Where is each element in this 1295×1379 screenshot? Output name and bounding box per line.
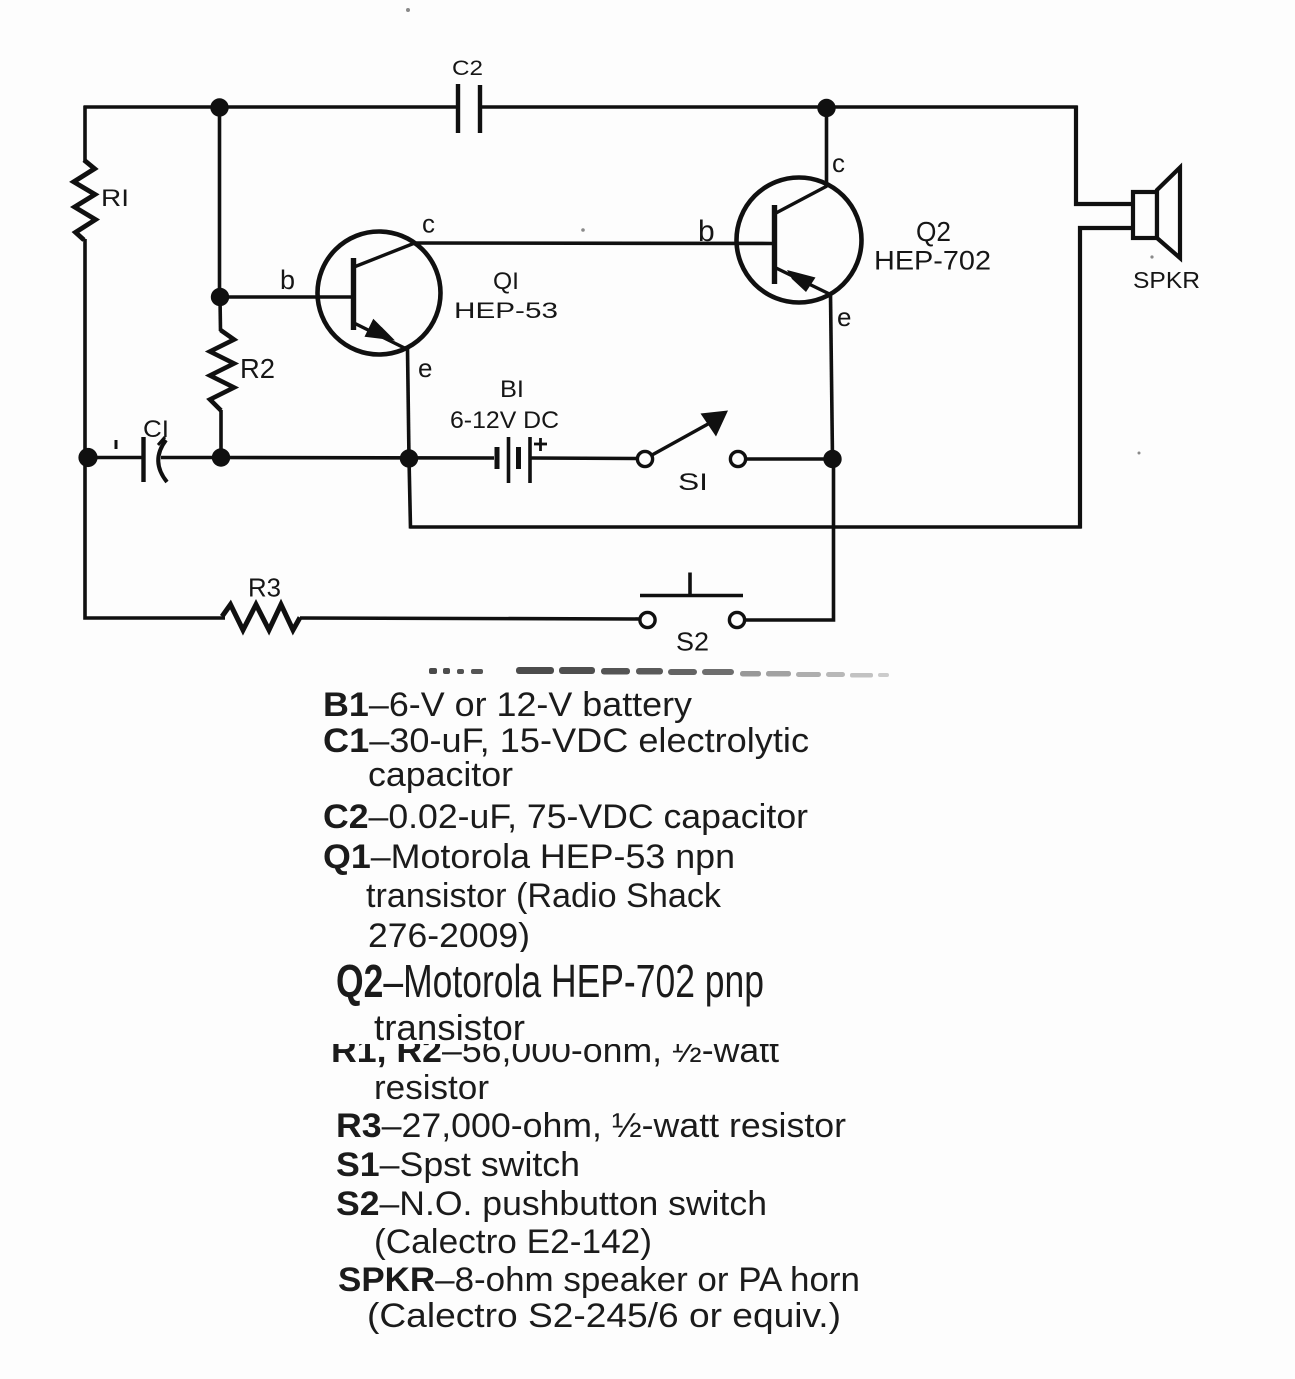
node: Q1 base junction — [211, 288, 229, 306]
battery B1 — [497, 437, 547, 483]
wire emitter junction down to lower rail — [409, 458, 411, 529]
svg-text:e: e — [837, 302, 851, 332]
svg-text:b: b — [280, 265, 295, 295]
capacitor C1 (electrolytic) — [116, 437, 167, 482]
parts list line R3 — [336, 1109, 846, 1143]
parts list line C1 cont — [368, 758, 513, 792]
wire R2 upper stub — [218, 297, 222, 331]
svg-text:R2: R2 — [240, 353, 275, 384]
wire S2 right terminal to corner and up to S1 junction — [745, 458, 834, 620]
svg-text:HEP-702: HEP-702 — [874, 246, 991, 276]
node: C1 left junction — [78, 448, 97, 467]
resistor R3 — [222, 605, 300, 631]
wire R2 lower stub — [219, 410, 223, 458]
parts list line Q1 cont1 — [366, 879, 721, 913]
parts list line R1R2 (top clipped by paste-up patch) — [331, 1034, 779, 1068]
wire top rail right of C2 — [481, 105, 1078, 109]
speaker SPKR — [1133, 168, 1180, 259]
parts list line S2 cont — [374, 1225, 652, 1259]
wire Q1 emitter drop to battery rail — [408, 349, 410, 459]
resistor R1 — [74, 160, 96, 240]
wire battery rail left of B1 — [221, 456, 494, 460]
parts list line B1 — [323, 688, 692, 722]
transistor Q1 — [318, 232, 441, 355]
switch S2 (pushbutton) — [640, 573, 745, 628]
wire C1 right segment to R2 junction — [161, 456, 221, 460]
parts list line Q1 cont2 — [368, 919, 530, 953]
svg-text:Q2: Q2 — [916, 216, 951, 247]
svg-text:SPKR: SPKR — [1133, 267, 1200, 293]
switch S1 — [637, 411, 745, 467]
wire battery to S1 left terminal — [531, 456, 638, 460]
wire C1 left segment — [87, 456, 142, 460]
node: R2 bottom junction — [212, 448, 230, 466]
transistor Q2 — [737, 178, 862, 303]
wire top rail left of C2 — [84, 105, 457, 109]
wire lower horizontal rail — [410, 525, 1082, 529]
scan specks — [406, 8, 1154, 455]
resistor R2 — [210, 330, 234, 411]
erased caption smudge — [429, 667, 889, 678]
wire speaker bottom stub and right rail down — [1080, 228, 1133, 529]
node: S1 right junction — [823, 450, 841, 468]
parts list line C1 — [323, 724, 809, 758]
wire Q2 emitter vertical — [831, 294, 833, 459]
parts list line SPKR cont — [367, 1299, 841, 1333]
parts list line S1 — [336, 1148, 580, 1182]
wire Q2 collector vertical — [825, 107, 829, 187]
svg-text:HEP-53: HEP-53 — [454, 298, 558, 323]
svg-text:e: e — [418, 353, 432, 383]
svg-text:QI: QI — [493, 268, 519, 295]
wire right drop to speaker top stub — [1076, 106, 1133, 205]
svg-text:BI: BI — [500, 376, 524, 403]
parts list line Q1 — [323, 840, 735, 874]
wire left rail top segment — [83, 106, 87, 163]
wire R2 rail from top junction to base junction — [218, 107, 222, 298]
svg-text:S2: S2 — [676, 627, 709, 657]
wire left rail below R1 down to bottom corner — [85, 239, 225, 618]
wire Q1 base lead — [220, 295, 352, 299]
parts list line R1R2 cont — [374, 1071, 489, 1105]
capacitor C2 plates — [458, 84, 480, 133]
parts list line Q2 cont (pasted, condensed) — [374, 1010, 525, 1046]
svg-text:6-12V DC: 6-12V DC — [450, 407, 559, 434]
parts list line C2 — [323, 800, 808, 834]
svg-text:R3: R3 — [248, 573, 281, 603]
svg-text:SI: SI — [678, 469, 708, 496]
svg-text:c: c — [832, 148, 845, 178]
svg-text:b: b — [698, 215, 715, 248]
node: top junction of R2 rail — [210, 98, 228, 116]
svg-text:C2: C2 — [452, 57, 483, 80]
parts list line Q2 (pasted, condensed) — [336, 958, 764, 1004]
node: top junction of Q2 collector — [817, 99, 835, 117]
wire R3 to S2 left terminal — [300, 618, 640, 619]
svg-text:c: c — [422, 209, 435, 239]
wire Q1 collector to Q2 base lead — [414, 241, 772, 245]
svg-text:RI: RI — [101, 185, 129, 212]
parts list line SPKR — [338, 1263, 860, 1297]
svg-text:CI: CI — [143, 416, 169, 443]
node: Q1 emitter junction — [400, 449, 418, 467]
paste-up white patch — [318, 952, 898, 1044]
wire S1 right terminal to junction — [746, 457, 834, 461]
parts list line S2 — [336, 1187, 767, 1221]
